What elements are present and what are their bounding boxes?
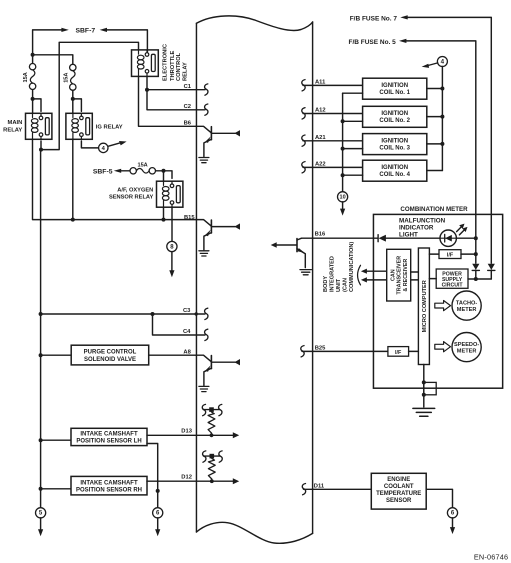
box IGNITION COIL No.4 (363, 160, 427, 181)
arrow SBF-5 left-pointing (114, 169, 121, 173)
wire into fuse SBF-7 no1 (32, 55, 34, 64)
svg-text:B6: B6 (184, 120, 192, 126)
wire A21 to coil 3 (303, 140, 363, 142)
label B16 (315, 232, 326, 238)
ground B16 emitter (300, 270, 311, 275)
wire fuse2 to IG relay (72, 90, 74, 99)
wire main contact to ETC coil (41, 42, 139, 149)
svg-text:CIRCUIT: CIRCUIT (442, 283, 464, 289)
arrow F/B5 left-pointing (399, 39, 406, 43)
wire F/B7 to meter (408, 17, 492, 263)
box I/F upper (439, 250, 461, 259)
node coil3 left junction (341, 147, 345, 151)
svg-text:COMMUNICATION): COMMUNICATION) (349, 242, 355, 292)
connector curl A22 (302, 162, 305, 173)
arrows lamp emission (457, 224, 468, 235)
box COMBINATION METER (373, 214, 502, 388)
wire to ref 6 left (157, 491, 159, 508)
svg-text:RELAY: RELAY (183, 62, 189, 81)
label C3 (183, 308, 191, 314)
wire power supply to diodes (468, 278, 491, 280)
wire main relay coil feed (32, 99, 34, 113)
ECM block top torn edge (196, 16, 312, 31)
svg-text:(CAN: (CAN (343, 278, 349, 292)
fuse 15A SBF-5 (130, 168, 156, 174)
resistor D12 pull-up (203, 451, 223, 483)
wire fuse1 to main relay (32, 90, 34, 99)
svg-text:RELAY: RELAY (3, 127, 22, 133)
svg-text:COIL No. 2: COIL No. 2 (379, 118, 410, 124)
svg-text:BODY: BODY (323, 276, 329, 292)
label SBF-5 (93, 168, 113, 175)
wire purge valve to A8 (149, 354, 196, 356)
fuse 15A no2 (70, 64, 76, 90)
svg-text:COOLANT: COOLANT (384, 484, 414, 490)
svg-text:IGNITION: IGNITION (381, 165, 408, 171)
svg-text:IGNITION: IGNITION (381, 139, 408, 145)
svg-text:SENSOR: SENSOR (386, 498, 412, 504)
wire A8 feed (41, 354, 72, 356)
wire SBF-5 to fuse (121, 170, 130, 172)
wire coil 1 left lower terminal (343, 92, 363, 94)
node ground connector top (422, 380, 426, 384)
box IGNITION COIL No.1 (363, 78, 427, 99)
wire coil 3 right terminal (427, 143, 443, 145)
svg-text:COIL No. 1: COIL No. 1 (379, 90, 410, 96)
wire fuse to A/F relay (156, 171, 172, 181)
wire microcomputer to IF upper (429, 253, 439, 255)
svg-text:A/F, OXYGEN: A/F, OXYGEN (117, 187, 153, 193)
ECM block right edge (312, 22, 314, 533)
svg-text:INTAKE CAMSHAFT: INTAKE CAMSHAFT (80, 432, 138, 438)
node sensor ground junction (156, 489, 160, 493)
node main relay contact junction (39, 148, 43, 152)
label COMBINATION METER (400, 206, 468, 213)
label C2 (184, 104, 191, 110)
svg-text:A11: A11 (315, 80, 326, 86)
ref circle 4 left (99, 143, 108, 152)
svg-text:TEMPERATURE: TEMPERATURE (376, 491, 421, 497)
arrow ref6 down (155, 529, 160, 536)
arrow D13 right (233, 432, 239, 438)
arrow ref4 up-right (119, 141, 127, 145)
wire IG relay coil feed (72, 99, 74, 113)
meter SPEEDOMETER (452, 333, 481, 362)
box INTAKE CAMSHAFT POSITION SENSOR LH (71, 428, 147, 445)
connector curl A11 (302, 80, 305, 91)
wire coil 2 left lower terminal (343, 120, 363, 122)
svg-text:15A: 15A (137, 162, 147, 168)
svg-text:15A: 15A (63, 73, 69, 83)
wire ignition power right rail (441, 67, 443, 171)
arrow block tachometer (435, 301, 451, 311)
label 15A SBF-5 (137, 162, 147, 168)
box MICRO COMPUTER (418, 248, 429, 365)
arrow ref6R down (450, 527, 455, 534)
wire ref8 stem (171, 252, 173, 271)
label A12 (315, 108, 326, 114)
ref circle 8 (167, 241, 177, 251)
wire D12 signal (147, 480, 234, 482)
wire ref6R stem (452, 518, 454, 527)
svg-text:F/B FUSE No. 7: F/B FUSE No. 7 (350, 15, 398, 22)
label SBF-7 (75, 27, 95, 34)
wire D11 to sensor (304, 488, 372, 490)
connector curl C1 (205, 84, 208, 95)
wire C4 branch (153, 314, 206, 335)
label ELECTRONIC THROTTLE CONTROL RELAY (163, 44, 189, 81)
wire branch to fuse 2 (33, 55, 73, 65)
wire coil 2 right terminal (427, 116, 443, 118)
ECM block bottom torn edge (196, 522, 312, 543)
wire CAN to microcomputer 1 (411, 271, 419, 273)
wire LH sensor ground branch (147, 444, 158, 491)
wire IF upper to power rail (461, 253, 476, 255)
wire CAN low (361, 277, 387, 282)
svg-text:IG RELAY: IG RELAY (96, 124, 123, 130)
svg-text:4: 4 (441, 58, 445, 65)
box ENGINE COOLANT TEMPERATURE SENSOR (371, 473, 426, 509)
box POWER SUPPLY CIRCUIT (436, 269, 468, 289)
box IGNITION COIL No.3 (363, 134, 427, 155)
svg-text:B15: B15 (184, 215, 195, 221)
svg-text:B16: B16 (315, 232, 326, 238)
arrow block speedometer (435, 342, 451, 352)
connector curl A12 (302, 108, 305, 119)
svg-text:D12: D12 (181, 475, 192, 481)
node IG relay feed junction (71, 97, 75, 101)
svg-text:SBF-5: SBF-5 (93, 168, 113, 175)
svg-text:ENGINE: ENGINE (387, 477, 410, 483)
label BODY INTEGRATED UNIT (CAN COMMUNICATION) (323, 242, 355, 292)
wire A/F contact to ref 8 (171, 207, 173, 241)
label A8 (183, 349, 191, 355)
diode power F/B5 (472, 264, 479, 279)
label A11 (315, 80, 326, 86)
ref circle 6 right (447, 508, 457, 518)
svg-text:B25: B25 (315, 346, 326, 352)
connector curl A21 (302, 135, 305, 146)
node IG coil junction B15 line (71, 139, 75, 221)
wire B25 to IF lower (302, 350, 388, 352)
label B6 (184, 120, 192, 126)
wire SBF-7 to ETC relay contact (107, 30, 148, 52)
label B15 (184, 215, 195, 221)
node C3 edge crossing (195, 312, 198, 315)
node coil2 left junction (341, 119, 345, 123)
node RH sensor junction (39, 487, 43, 491)
ref circle 4 top (437, 57, 447, 67)
node lamp power junction (474, 236, 478, 240)
svg-text:C2: C2 (184, 104, 191, 110)
svg-text:I/F: I/F (395, 350, 402, 356)
svg-text:POSITION SENSOR RH: POSITION SENSOR RH (76, 488, 142, 494)
fuse 15A no1 (29, 63, 35, 89)
svg-text:SPEEDO-: SPEEDO- (454, 342, 479, 348)
connector curl C3 (205, 308, 208, 319)
label C1 (184, 84, 192, 90)
label F/B FUSE No.7 (350, 15, 398, 22)
wire left rail main contact down (40, 150, 42, 508)
label 15A no2 (63, 73, 69, 83)
node main relay feed junction (31, 97, 35, 101)
relay MAIN RELAY (26, 113, 52, 139)
svg-text:EN-06746: EN-06746 (474, 552, 508, 561)
wire A11 to coil 1 (303, 84, 363, 86)
label A/F OXYGEN SENSOR RELAY (109, 187, 154, 200)
box PURGE CONTROL SOLENOID VALVE (71, 345, 149, 365)
svg-text:SENSOR RELAY: SENSOR RELAY (109, 195, 154, 201)
wire ref6 stem (157, 518, 159, 529)
node ground connector bottom (422, 393, 426, 397)
wire C1 branch to C2 (147, 90, 205, 110)
svg-text:LIGHT: LIGHT (399, 231, 418, 238)
relay IG RELAY (66, 113, 92, 139)
node A/F relay feed junction (162, 169, 166, 173)
box IGNITION COIL No.2 (363, 106, 427, 127)
label B25 (315, 346, 326, 352)
arrow ref4 top down-left (422, 64, 430, 68)
svg-text:C4: C4 (183, 329, 191, 335)
connector curl B25 (301, 346, 304, 357)
wire microcomputer to power supply (429, 278, 436, 280)
label MALFUNCTION INDICATOR LIGHT (399, 217, 446, 238)
wire ignition common left rail (342, 93, 344, 192)
svg-text:A8: A8 (183, 349, 191, 355)
wire ref4 arrow line (108, 143, 120, 146)
arrow ref10 down (340, 209, 345, 216)
arrow SBF-7 left-pointing (100, 28, 107, 32)
wire C3 (41, 313, 205, 315)
ECM block left edge (195, 23, 197, 532)
wire coil 4 right terminal (427, 170, 443, 172)
wire CAN to microcomputer 2 (411, 279, 419, 281)
wire relay coils to B15 (33, 139, 197, 219)
wire IG relay contact feed (73, 99, 82, 112)
svg-text:MALFUNCTION: MALFUNCTION (399, 217, 446, 224)
node coil4 left junction (341, 173, 345, 177)
connector curl C4 (205, 329, 208, 340)
svg-text:TACHO-: TACHO- (456, 300, 477, 306)
node coil2 right junction (440, 115, 444, 119)
ref circle 5 (36, 508, 46, 518)
transistor B15 driver (196, 220, 240, 256)
svg-text:INTAKE CAMSHAFT: INTAKE CAMSHAFT (80, 481, 138, 487)
svg-text:THROTTLE: THROTTLE (170, 50, 176, 81)
svg-text:A21: A21 (315, 135, 326, 141)
diode power F/B7 (488, 264, 495, 279)
wire D13 signal (147, 434, 234, 436)
label A21 (315, 135, 326, 141)
svg-text:C3: C3 (183, 308, 191, 314)
wire CAN high (361, 269, 387, 274)
wire ETC coil to B6 (139, 77, 197, 127)
svg-text:METER: METER (457, 307, 477, 313)
node coil1 right junction (440, 87, 444, 91)
wire main relay contact feed (33, 99, 41, 112)
transistor A8 driver (196, 355, 240, 391)
wire coil 3 left lower terminal (343, 148, 363, 150)
meter TACHOMETER (452, 291, 481, 320)
svg-text:METER: METER (457, 349, 477, 355)
svg-text:COIL No. 4: COIL No. 4 (379, 172, 410, 178)
svg-text:D13: D13 (181, 429, 192, 435)
svg-text:UNIT: UNIT (336, 278, 342, 292)
label F/B FUSE No.5 (348, 39, 396, 46)
wire lamp to power rail (456, 237, 475, 239)
svg-text:F/B FUSE No. 5: F/B FUSE No. 5 (348, 39, 396, 46)
wire B16 collector out (302, 237, 378, 239)
label D13 (181, 429, 192, 435)
node power supply junction (474, 277, 478, 281)
svg-text:D11: D11 (314, 483, 325, 489)
wire sensor to ref 6 (426, 489, 452, 507)
node IF power junction (474, 252, 478, 256)
svg-text:& RECEIVER: & RECEIVER (403, 259, 409, 292)
svg-text:COMBINATION METER: COMBINATION METER (400, 206, 468, 213)
resistor D13 pull-up (202, 404, 222, 437)
label 15A no1 (23, 72, 29, 82)
svg-text:TRANSCEIVER: TRANSCEIVER (397, 256, 403, 295)
svg-text:COIL No. 3: COIL No. 3 (379, 146, 410, 152)
ref circle 6 left (153, 508, 163, 518)
svg-text:INDICATOR: INDICATOR (399, 224, 434, 231)
label EN-06746 (474, 552, 508, 561)
node A8 junction (39, 353, 43, 357)
node AF coil junction B15 line (162, 207, 166, 221)
svg-text:SOLENOID VALVE: SOLENOID VALVE (84, 357, 136, 363)
node fuse branch junction (31, 53, 35, 57)
wire F/B5 to meter (406, 41, 476, 263)
label A22 (315, 162, 326, 168)
svg-text:IGNITION: IGNITION (381, 111, 408, 117)
transistor B16 driver (271, 238, 306, 267)
svg-text:CONTROL: CONTROL (176, 52, 182, 81)
wire SBF-7 feed left (33, 30, 62, 55)
ref circle 10 (338, 192, 348, 202)
node C1 junction (145, 88, 149, 92)
svg-text:INTEGRATED: INTEGRATED (330, 256, 336, 292)
svg-text:MAIN: MAIN (7, 120, 22, 126)
svg-text:A12: A12 (315, 108, 326, 114)
arc CAN communication (358, 265, 361, 285)
svg-text:SBF-7: SBF-7 (75, 27, 95, 34)
svg-text:CAN: CAN (390, 269, 396, 281)
wire A12 to coil 2 (303, 113, 363, 115)
node LH sensor junction (39, 438, 43, 442)
lamp MALFUNCTION INDICATOR LIGHT (440, 230, 456, 246)
wire ref5 stem (40, 518, 42, 529)
label D12 (181, 475, 192, 481)
arrow D12 right (233, 478, 239, 484)
ground combination meter (413, 408, 435, 416)
label C4 (183, 329, 191, 335)
wire ETC contact to C1 (147, 77, 205, 90)
wire IG contact to ref 4 (81, 141, 98, 148)
label D11 (314, 483, 325, 489)
arrow F/B7 left-pointing (400, 15, 407, 19)
svg-text:POSITION SENSOR LH: POSITION SENSOR LH (76, 439, 141, 445)
arrow ref8 down (169, 270, 174, 277)
label IG RELAY (96, 124, 123, 130)
svg-text:IGNITION: IGNITION (381, 83, 408, 89)
svg-text:I/F: I/F (447, 252, 454, 258)
box CAN TRANSCEIVER & RECEIVER (387, 249, 411, 301)
svg-text:A22: A22 (315, 162, 326, 168)
connector curl C2 (205, 104, 208, 115)
node C4 branch junction (151, 312, 155, 316)
transistor B6 driver (196, 126, 240, 162)
wire microcomputer ground (423, 365, 425, 408)
wire ref4 top arrow line (428, 63, 438, 66)
connector box meter ground (424, 382, 436, 394)
node C3 junction (39, 312, 43, 316)
wire ref10 stem (342, 202, 344, 209)
svg-text:ELECTRONIC: ELECTRONIC (163, 44, 169, 81)
wire coil 1 right terminal (427, 88, 443, 90)
label MAIN RELAY (3, 120, 22, 133)
node coil3 right junction (440, 142, 444, 146)
arrow SBF-7 right-pointing (61, 28, 68, 32)
box INTAKE CAMSHAFT POSITION SENSOR RH (71, 476, 147, 495)
svg-text:15A: 15A (23, 72, 29, 82)
relay A/F OXYGEN SENSOR RELAY (157, 181, 183, 207)
svg-text:C1: C1 (184, 84, 192, 90)
wire IF lower to microcomputer (409, 350, 419, 352)
wire A22 to coil 4 (303, 166, 363, 168)
wire coil 4 left lower terminal (343, 174, 363, 176)
svg-text:PURGE CONTROL: PURGE CONTROL (84, 350, 137, 356)
svg-text:MICRO COMPUTER: MICRO COMPUTER (422, 280, 428, 332)
connector curl D11 (302, 484, 305, 495)
svg-text:10: 10 (340, 195, 346, 201)
wire LH sensor feed (41, 439, 71, 441)
diode MIL series (378, 235, 440, 242)
box I/F lower (388, 347, 409, 357)
relay ELECTRONIC THROTTLE CONTROL RELAY (132, 50, 159, 77)
wire RH sensor feed (41, 488, 71, 490)
arrow ref5 down (38, 529, 43, 536)
